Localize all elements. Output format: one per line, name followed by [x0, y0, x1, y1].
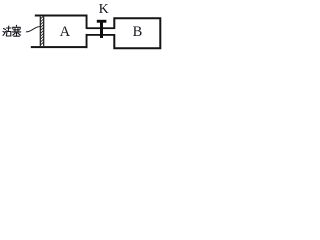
cylinder A top wall — [35, 15, 88, 17]
cylinder A right wall lower segment — [86, 34, 88, 48]
connecting tube top wall — [87, 27, 115, 29]
valve K cap bar — [97, 20, 107, 23]
leader line from 活塞 to piston — [26, 27, 40, 32]
svg-text:A: A — [60, 24, 71, 40]
svg-text:B: B — [133, 24, 143, 40]
valve K stem — [100, 23, 103, 39]
vessel B outline — [114, 18, 160, 48]
cylinder A bottom wall — [31, 46, 88, 48]
cylinder A right wall upper segment — [86, 15, 88, 29]
label 活塞 (piston callout text) — [3, 25, 21, 36]
piston (hatched bar inside cylinder A) — [40, 16, 45, 46]
connecting tube bottom wall — [87, 34, 115, 36]
svg-text:K: K — [99, 2, 109, 17]
